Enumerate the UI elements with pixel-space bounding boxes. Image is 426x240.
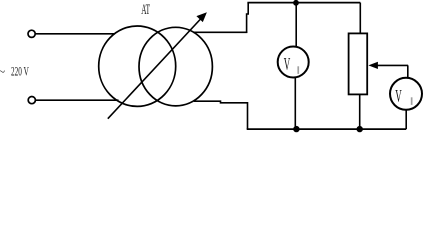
svg-text:V: V <box>284 55 291 75</box>
wire rheostat bottom lead <box>359 94 361 129</box>
autotransformer AT secondary winding <box>139 27 212 106</box>
voltmeter V1 <box>278 47 309 78</box>
svg-text:V: V <box>395 87 402 107</box>
wire bottom bus <box>247 128 407 130</box>
wire bottom-right (AT to bottom bus, with jog) <box>194 101 248 129</box>
voltmeter V2 <box>390 78 422 110</box>
wire V2 bottom lead <box>405 109 407 129</box>
label ~ 220 V (source voltage) <box>0 65 29 80</box>
wire top bus <box>247 2 360 4</box>
wire top bus to rheostat <box>359 3 361 34</box>
wire V1 top lead <box>295 3 297 49</box>
terminal bottom input <box>28 97 35 104</box>
svg-text:AT: AT <box>141 3 150 18</box>
wire V1 bottom lead <box>294 77 296 130</box>
rheostat wiper arrow <box>368 62 408 69</box>
variac adjustment arrow <box>108 12 207 119</box>
node junction bottom (rheostat tap) <box>357 126 363 132</box>
autotransformer AT primary winding <box>99 26 176 106</box>
svg-text:220 V: 220 V <box>11 66 29 80</box>
wire V2 top lead <box>407 65 409 78</box>
rheostat R body <box>349 33 368 94</box>
wire bottom-left (terminal to AT) <box>36 99 119 101</box>
node junction top (V1 tap) <box>293 0 299 6</box>
wire top-right (AT to top bus, with jog) <box>193 31 247 33</box>
terminal top input <box>28 30 35 37</box>
wire top-left (terminal to AT) <box>35 33 115 35</box>
node junction bottom (V1 tap) <box>293 126 299 132</box>
svg-text:~: ~ <box>0 65 6 79</box>
